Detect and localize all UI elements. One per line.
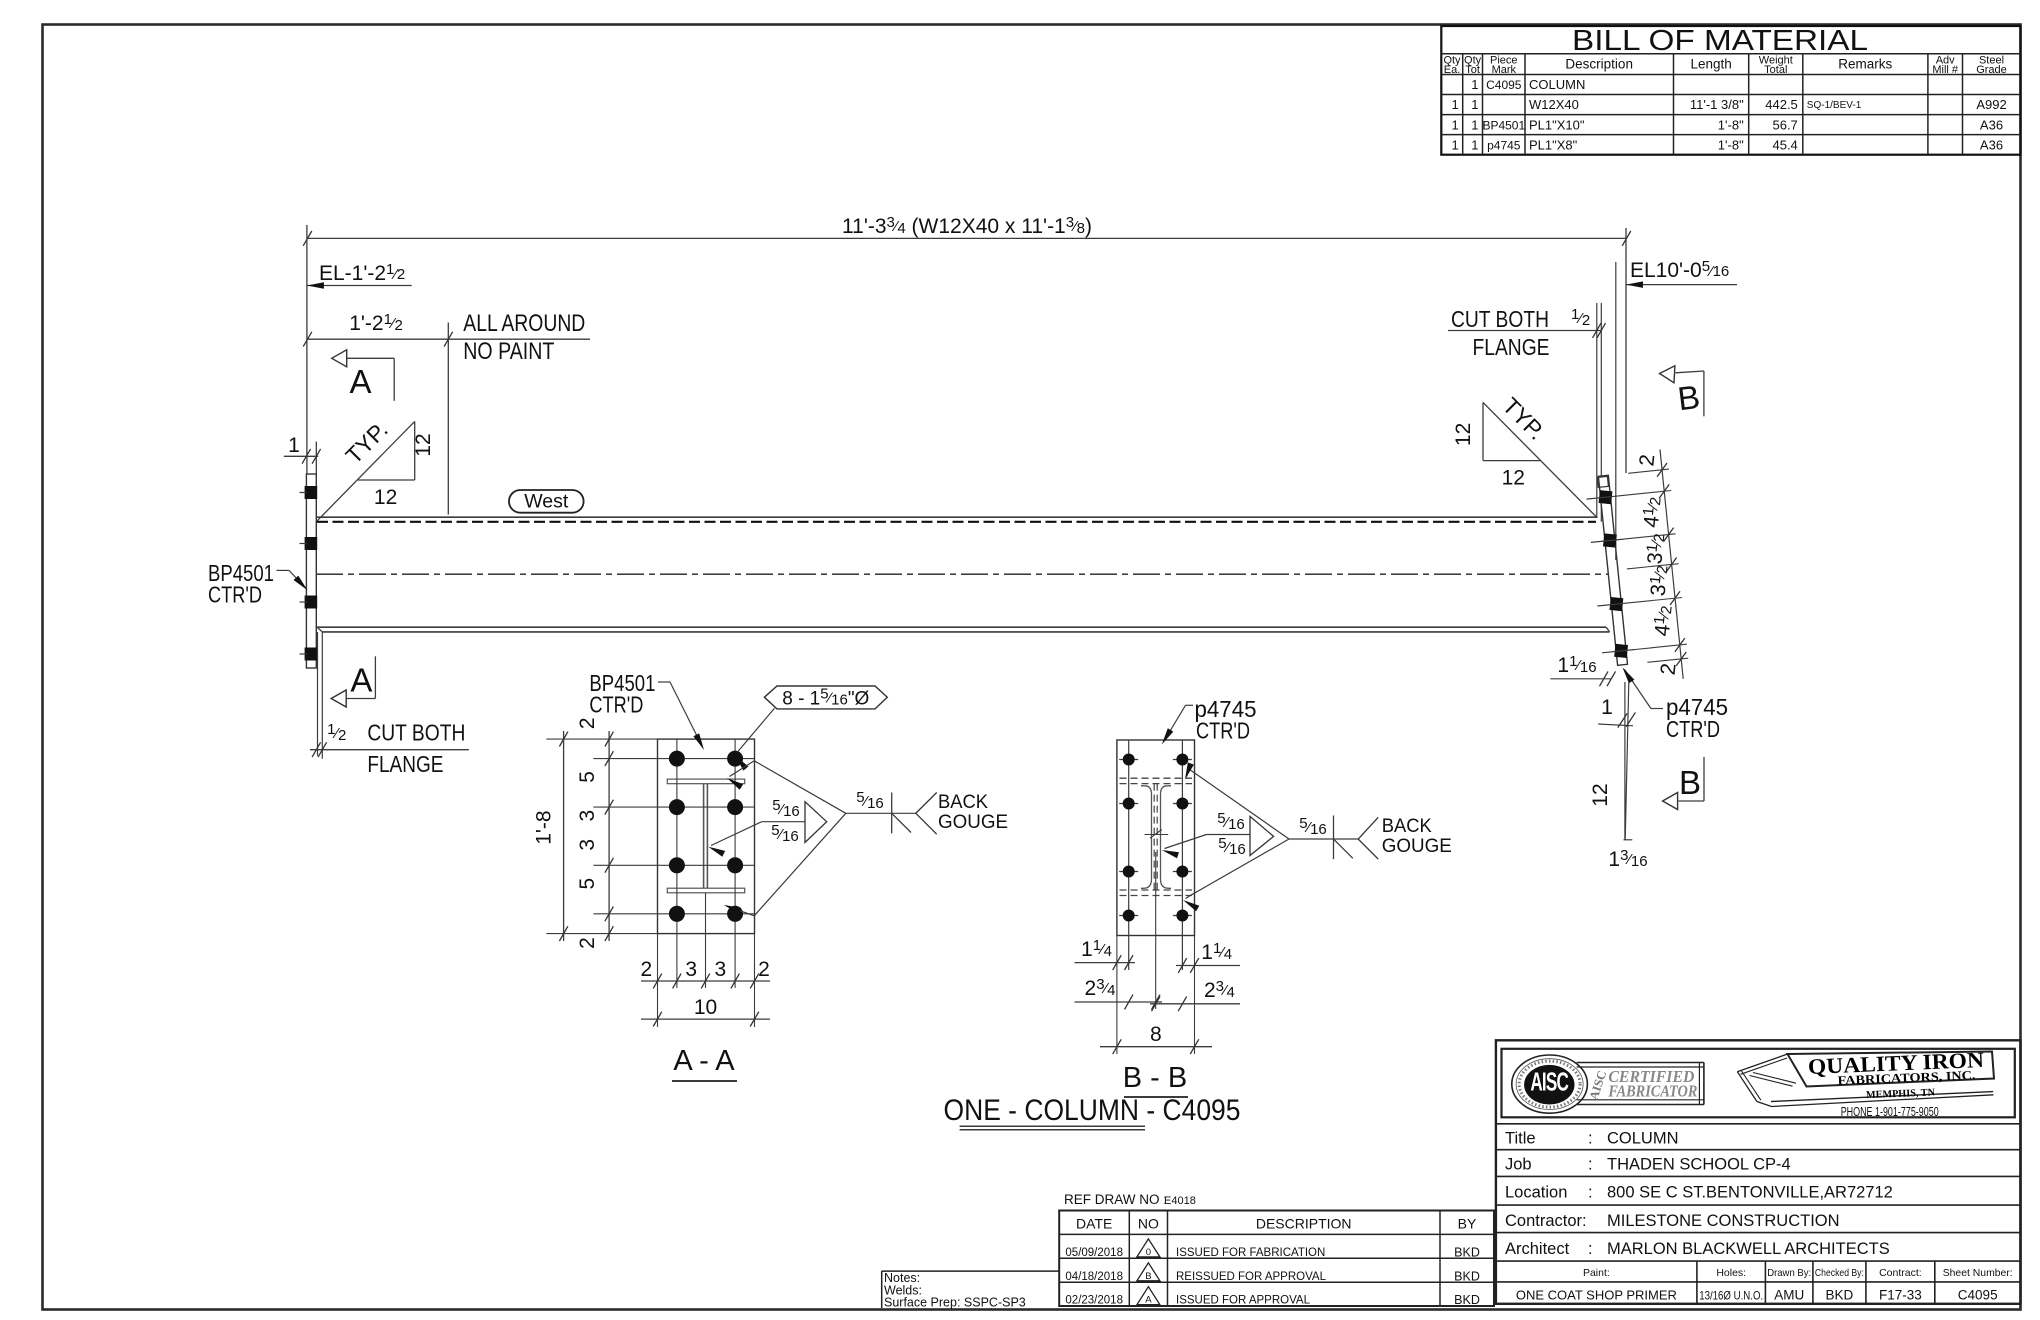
svg-text:41⁄2: 41⁄2 bbox=[1650, 604, 1677, 637]
svg-text:SQ-1/BEV-1: SQ-1/BEV-1 bbox=[1807, 100, 1862, 111]
label BP4501 CTRD (A-A) bbox=[589, 670, 704, 750]
B-B center cross bbox=[1145, 830, 1169, 839]
svg-text:1'-8": 1'-8" bbox=[1718, 117, 1744, 132]
svg-text:5: 5 bbox=[576, 878, 599, 890]
svg-text:GOUGE: GOUGE bbox=[1382, 836, 1452, 857]
svg-text:1: 1 bbox=[1471, 117, 1478, 132]
svg-text:Length: Length bbox=[1690, 57, 1731, 72]
svg-text:ISSUED FOR FABRICATION: ISSUED FOR FABRICATION bbox=[1176, 1247, 1325, 1259]
bolt callout hexagon 8 - 1 5/16 dia bbox=[735, 686, 887, 771]
revision table content bbox=[1065, 1216, 1479, 1308]
A-A weld symbol web fillet 5/16 both sides bbox=[708, 797, 826, 857]
A-A bottom dimension lines bbox=[640, 958, 770, 1027]
svg-text:CTR'D: CTR'D bbox=[1196, 718, 1250, 744]
svg-text:B: B bbox=[1679, 764, 1701, 801]
left extension line bbox=[306, 225, 308, 474]
svg-text:A - A: A - A bbox=[673, 1045, 735, 1077]
title block outer bbox=[1496, 1040, 2021, 1304]
svg-text:23⁄4: 23⁄4 bbox=[1085, 976, 1116, 1000]
dim 1 left plate thickness bbox=[284, 434, 321, 474]
svg-text:Drawn By:: Drawn By: bbox=[1767, 1267, 1811, 1279]
svg-text::: : bbox=[1588, 1156, 1593, 1174]
svg-text:CTR'D: CTR'D bbox=[589, 692, 643, 718]
REF DRAW NO bbox=[1064, 1192, 1196, 1207]
svg-text:BP4501: BP4501 bbox=[1482, 118, 1525, 132]
svg-text:GOUGE: GOUGE bbox=[938, 812, 1008, 833]
svg-text:5⁄16: 5⁄16 bbox=[1217, 810, 1245, 833]
svg-text:REISSUED FOR APPROVAL: REISSUED FOR APPROVAL bbox=[1176, 1271, 1327, 1283]
svg-text:C4095: C4095 bbox=[1958, 1288, 1998, 1303]
svg-text:11⁄4: 11⁄4 bbox=[1201, 940, 1232, 964]
small open rect at plate top bbox=[1597, 476, 1608, 487]
svg-text:2: 2 bbox=[758, 958, 770, 981]
svg-text:8 - 15⁄16"Ø: 8 - 15⁄16"Ø bbox=[782, 686, 869, 710]
svg-text:REF DRAW NO :: REF DRAW NO : bbox=[1064, 1192, 1167, 1207]
svg-text:2: 2 bbox=[1635, 453, 1659, 467]
svg-text:FLANGE: FLANGE bbox=[1473, 334, 1550, 360]
svg-text:45.4: 45.4 bbox=[1772, 137, 1797, 152]
drawing title ONE - COLUMN - C4095 bbox=[944, 1094, 1241, 1130]
svg-text:442.5: 442.5 bbox=[1765, 97, 1798, 112]
svg-text:Contractor:: Contractor: bbox=[1505, 1212, 1587, 1230]
svg-text:Job: Job bbox=[1505, 1156, 1532, 1174]
svg-text:3: 3 bbox=[685, 958, 697, 981]
section A-A plate BP4501 outline bbox=[658, 739, 755, 934]
svg-text:BY: BY bbox=[1458, 1216, 1477, 1232]
svg-text:BKD: BKD bbox=[1454, 1293, 1480, 1307]
B-B back gouge tail bbox=[1289, 815, 1452, 859]
svg-text:56.7: 56.7 bbox=[1772, 117, 1797, 132]
svg-text:11'-33⁄4 (W12X40 x 11'-13⁄8): 11'-33⁄4 (W12X40 x 11'-13⁄8) bbox=[842, 214, 1092, 238]
svg-text:EL-1'-21⁄2: EL-1'-21⁄2 bbox=[319, 261, 405, 285]
svg-text:Architect: Architect bbox=[1505, 1240, 1570, 1258]
svg-text:1: 1 bbox=[288, 434, 300, 457]
svg-text:B - B: B - B bbox=[1123, 1062, 1187, 1094]
svg-text:3: 3 bbox=[714, 958, 726, 981]
right extension line EL bbox=[1625, 228, 1627, 473]
svg-text:Checked By:: Checked By: bbox=[1815, 1267, 1864, 1279]
svg-text:23⁄4: 23⁄4 bbox=[1204, 978, 1235, 1002]
revision table grid bbox=[1059, 1211, 1494, 1307]
svg-text:04/18/2018: 04/18/2018 bbox=[1065, 1271, 1123, 1283]
svg-text:5⁄16: 5⁄16 bbox=[1218, 835, 1246, 858]
svg-text:Title: Title bbox=[1505, 1130, 1536, 1148]
svg-text:12: 12 bbox=[412, 433, 435, 456]
A-A vertical dimension lines bbox=[532, 717, 613, 948]
svg-text:AISC: AISC bbox=[1587, 1069, 1610, 1102]
svg-text:BILL OF MATERIAL: BILL OF MATERIAL bbox=[1572, 25, 1868, 57]
svg-text:1: 1 bbox=[1471, 137, 1478, 152]
svg-text:C4095: C4095 bbox=[1486, 78, 1522, 92]
B-B bottom dimension lines bbox=[1075, 937, 1241, 1054]
svg-text:West: West bbox=[524, 491, 569, 513]
svg-text:0: 0 bbox=[1146, 1247, 1151, 1258]
section marker A top bbox=[332, 350, 395, 401]
column centerline bbox=[316, 573, 1611, 575]
section A-A bolts (8) bbox=[669, 751, 743, 922]
svg-text:ONE - COLUMN - C4095: ONE - COLUMN - C4095 bbox=[944, 1094, 1241, 1127]
slope triangle TYP left bbox=[317, 416, 435, 520]
BOM data rows bbox=[1451, 77, 2006, 152]
cut line extensions below flange left bbox=[318, 632, 323, 759]
A-A back gouge tail bbox=[846, 789, 1008, 834]
svg-text:CTR'D: CTR'D bbox=[208, 582, 262, 608]
svg-text::: : bbox=[1588, 1240, 1593, 1258]
section A-A beam W12X40 cross lines bbox=[667, 779, 744, 893]
svg-text:THADEN SCHOOL CP-4: THADEN SCHOOL CP-4 bbox=[1607, 1156, 1791, 1174]
B-B weld profile solid lines bbox=[1141, 786, 1171, 889]
section marker A bottom bbox=[331, 656, 375, 707]
svg-text:2: 2 bbox=[576, 717, 599, 729]
West tag oval bbox=[509, 490, 584, 513]
section cut line B vertical bbox=[1615, 262, 1617, 560]
A-A title bbox=[672, 1045, 737, 1081]
svg-text:1'-21⁄2: 1'-21⁄2 bbox=[349, 311, 403, 335]
B-B weld symbol web fillet bbox=[1162, 810, 1274, 858]
svg-text:12: 12 bbox=[1452, 423, 1475, 446]
svg-text:TYP.: TYP. bbox=[1498, 392, 1550, 444]
svg-text:11⁄16: 11⁄16 bbox=[1557, 653, 1596, 677]
svg-text:MARLON BLACKWELL ARCHITECTS: MARLON BLACKWELL ARCHITECTS bbox=[1607, 1240, 1890, 1258]
svg-text:Mill #: Mill # bbox=[1932, 64, 1959, 76]
svg-text:BACK: BACK bbox=[1382, 816, 1432, 837]
svg-text:3: 3 bbox=[576, 839, 599, 851]
svg-text:Surface Prep: SSPC-SP3: Surface Prep: SSPC-SP3 bbox=[884, 1296, 1026, 1310]
svg-text:ISSUED FOR APPROVAL: ISSUED FOR APPROVAL bbox=[1176, 1295, 1311, 1307]
svg-text:Tot: Tot bbox=[1465, 64, 1480, 76]
svg-text:2: 2 bbox=[576, 937, 599, 949]
svg-text:FABRICATOR: FABRICATOR bbox=[1608, 1082, 1698, 1101]
svg-text:10: 10 bbox=[694, 996, 717, 1019]
section B-B bolts (8) bbox=[1123, 754, 1189, 922]
B-B title bbox=[1123, 1062, 1188, 1097]
svg-text:AMU: AMU bbox=[1774, 1288, 1804, 1303]
svg-text:1: 1 bbox=[1601, 696, 1613, 719]
svg-text:Description: Description bbox=[1565, 57, 1633, 72]
svg-text:DATE: DATE bbox=[1076, 1216, 1112, 1232]
svg-text:1: 1 bbox=[1451, 117, 1458, 132]
svg-text:PL1"X10": PL1"X10" bbox=[1529, 117, 1585, 132]
svg-text:A: A bbox=[1145, 1295, 1152, 1306]
slope triangle TYP right bbox=[1452, 392, 1596, 517]
svg-text:8: 8 bbox=[1150, 1023, 1162, 1046]
svg-text:1: 1 bbox=[1471, 77, 1478, 92]
svg-text::: : bbox=[1588, 1130, 1593, 1148]
svg-text:12: 12 bbox=[1589, 783, 1612, 806]
svg-text:800 SE C ST.BENTONVILLE,AR7271: 800 SE C ST.BENTONVILLE,AR72712 bbox=[1607, 1184, 1893, 1202]
column bottom flange lines bbox=[317, 627, 1610, 632]
svg-text:A992: A992 bbox=[1976, 97, 2006, 112]
label p4745 CTRD (B-B) bbox=[1162, 696, 1257, 745]
svg-text:NO PAINT: NO PAINT bbox=[463, 338, 554, 365]
svg-text:TYP.: TYP. bbox=[340, 416, 392, 468]
svg-text:1: 1 bbox=[1451, 97, 1458, 112]
label p4745 CTRD (elevation) bbox=[1622, 667, 1728, 742]
overall dimension 11ft-3 3/4 bbox=[303, 214, 1631, 246]
svg-text:05/09/2018: 05/09/2018 bbox=[1065, 1247, 1123, 1259]
A-A CJP leader arrows to flange welds bbox=[724, 761, 846, 916]
svg-text:F17-33: F17-33 bbox=[1879, 1288, 1922, 1303]
svg-text:A: A bbox=[349, 363, 371, 400]
svg-text:12: 12 bbox=[374, 486, 397, 509]
svg-text:BKD: BKD bbox=[1454, 1245, 1480, 1259]
svg-text:COLUMN: COLUMN bbox=[1529, 77, 1585, 92]
svg-text:5⁄16: 5⁄16 bbox=[856, 789, 884, 812]
section B-B hidden beam dashed lines bbox=[1120, 778, 1193, 895]
svg-text:5⁄16: 5⁄16 bbox=[772, 797, 800, 820]
svg-text:Holes:: Holes: bbox=[1716, 1267, 1746, 1279]
svg-text:13/16Ø U.N.O.: 13/16Ø U.N.O. bbox=[1699, 1289, 1763, 1303]
title block fields bbox=[1505, 1130, 2013, 1303]
B-B bolt hole centerlines bbox=[1117, 740, 1195, 1054]
svg-text:1⁄2: 1⁄2 bbox=[327, 721, 346, 744]
svg-text:CUT BOTH: CUT BOTH bbox=[367, 720, 465, 746]
svg-text::: : bbox=[1588, 1184, 1593, 1202]
bolts on right plate (edge view) bbox=[1587, 490, 1636, 658]
svg-text:DESCRIPTION: DESCRIPTION bbox=[1256, 1216, 1352, 1232]
svg-text:BKD: BKD bbox=[1454, 1269, 1480, 1283]
svg-text:1'-8": 1'-8" bbox=[1718, 137, 1744, 152]
svg-text:31⁄2: 31⁄2 bbox=[1646, 564, 1673, 597]
svg-text:COLUMN: COLUMN bbox=[1607, 1130, 1679, 1148]
BOM headers bbox=[1443, 55, 2006, 76]
Quality Iron Fabricators logo bbox=[1737, 1047, 1994, 1119]
svg-text:5⁄16: 5⁄16 bbox=[1299, 815, 1327, 838]
svg-text:Location: Location bbox=[1505, 1184, 1567, 1202]
svg-text:PL1"X8": PL1"X8" bbox=[1529, 137, 1578, 152]
svg-text:Mark: Mark bbox=[1492, 64, 1517, 76]
section B-B plate p4745 outline bbox=[1117, 740, 1195, 936]
AISC certified fabricator logo bbox=[1512, 1055, 1704, 1113]
svg-text:AISC: AISC bbox=[1530, 1067, 1568, 1096]
svg-text:EL10'-05⁄16: EL10'-05⁄16 bbox=[1630, 258, 1729, 282]
svg-text:FLANGE: FLANGE bbox=[367, 751, 443, 777]
svg-text:5: 5 bbox=[576, 771, 599, 783]
column top flange hidden dashed line bbox=[317, 521, 1596, 523]
svg-text:1⁄2: 1⁄2 bbox=[1571, 306, 1590, 329]
svg-text:1: 1 bbox=[1451, 137, 1458, 152]
svg-text:Grade: Grade bbox=[1976, 64, 2007, 76]
svg-text:Ea.: Ea. bbox=[1444, 64, 1461, 76]
svg-text:A36: A36 bbox=[1980, 137, 2003, 152]
dim 1 right plate thickness bbox=[1598, 696, 1635, 728]
svg-text:13⁄16: 13⁄16 bbox=[1608, 847, 1647, 871]
svg-text:41⁄2: 41⁄2 bbox=[1639, 496, 1666, 529]
svg-text:Remarks: Remarks bbox=[1838, 57, 1892, 72]
base plate BP4501 left (edge view) bbox=[306, 474, 316, 668]
svg-text:2: 2 bbox=[640, 958, 652, 981]
dim 1-1/16 bbox=[1550, 653, 1615, 686]
svg-text:A: A bbox=[350, 662, 372, 699]
column top flange line bbox=[316, 516, 1597, 518]
bolts on left plate (edge view) bbox=[300, 486, 318, 661]
svg-text:2: 2 bbox=[1657, 662, 1681, 676]
dim half CUT BOTH FLANGE left bbox=[310, 720, 469, 778]
svg-text:p4745: p4745 bbox=[1487, 138, 1521, 152]
logo box bbox=[1502, 1049, 2015, 1118]
svg-text:Contract:: Contract: bbox=[1879, 1267, 1922, 1279]
svg-text:ALL AROUND: ALL AROUND bbox=[463, 310, 585, 337]
EL-1-2half label left bbox=[307, 261, 412, 289]
title block row lines bbox=[1496, 1124, 2021, 1304]
svg-text:Total: Total bbox=[1764, 64, 1787, 76]
svg-text:W12X40: W12X40 bbox=[1529, 97, 1579, 112]
section A-A bolt hole centerlines bbox=[546, 739, 754, 1027]
svg-text:NO: NO bbox=[1138, 1216, 1159, 1232]
base plate p4745 right (edge view, beveled) bbox=[1598, 475, 1627, 665]
dim half CUT BOTH FLANGE right bbox=[1448, 306, 1606, 360]
svg-text:3: 3 bbox=[576, 810, 599, 822]
label BP4501 CTRD (elevation) bbox=[208, 560, 308, 608]
svg-text:12: 12 bbox=[1502, 467, 1525, 490]
svg-text:1: 1 bbox=[1471, 97, 1478, 112]
svg-text:Paint:: Paint: bbox=[1583, 1267, 1610, 1279]
svg-text:BACK: BACK bbox=[938, 792, 988, 813]
EL10-0 5/16 label right bbox=[1626, 258, 1737, 288]
plate slope indicator 12 : 1-3/16 bbox=[1589, 682, 1648, 871]
svg-text:PHONE 1-901-775-9050: PHONE 1-901-775-9050 bbox=[1841, 1105, 1939, 1119]
svg-text:Sheet Number:: Sheet Number: bbox=[1943, 1267, 2013, 1279]
svg-text:11'-1 3/8": 11'-1 3/8" bbox=[1690, 97, 1744, 112]
svg-text:MILESTONE CONSTRUCTION: MILESTONE CONSTRUCTION bbox=[1607, 1212, 1840, 1230]
section marker B bottom bbox=[1663, 757, 1704, 810]
svg-text:02/23/2018: 02/23/2018 bbox=[1065, 1295, 1123, 1307]
svg-text:5⁄16: 5⁄16 bbox=[771, 822, 799, 845]
svg-text:1'-8: 1'-8 bbox=[532, 810, 555, 844]
svg-text:E4018: E4018 bbox=[1164, 1195, 1196, 1207]
cut both flange lines right bbox=[1597, 303, 1602, 522]
svg-text:11⁄4: 11⁄4 bbox=[1081, 937, 1112, 961]
B-B CJP leader arrows bbox=[1183, 762, 1289, 911]
section marker B top bbox=[1660, 366, 1704, 417]
svg-text:BKD: BKD bbox=[1826, 1288, 1854, 1303]
svg-text:CUT BOTH: CUT BOTH bbox=[1451, 306, 1549, 332]
dim 1ft-2half with ALL AROUND note bbox=[303, 310, 590, 515]
slanted dimension ladder right bbox=[1619, 449, 1688, 678]
svg-text:A36: A36 bbox=[1980, 117, 2003, 132]
notes box bbox=[882, 1271, 1059, 1310]
Bill of Material table grid bbox=[1441, 26, 2020, 155]
svg-text:ONE COAT SHOP PRIMER: ONE COAT SHOP PRIMER bbox=[1516, 1288, 1677, 1303]
svg-text:B: B bbox=[1676, 378, 1702, 417]
svg-text:CTR'D: CTR'D bbox=[1666, 716, 1720, 742]
svg-text:B: B bbox=[1145, 1271, 1151, 1282]
